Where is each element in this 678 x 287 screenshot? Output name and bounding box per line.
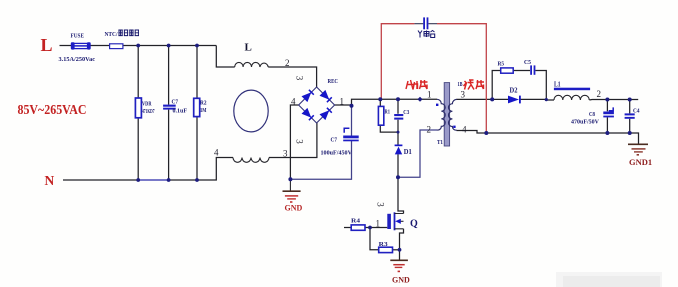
capacitor C4 plates: [625, 113, 635, 118]
svg-text:471KD7: 471KD7: [142, 108, 155, 115]
ground GND primary bridge: [283, 179, 301, 203]
node output C8 bottom: [605, 131, 609, 135]
svg-text:4: 4: [214, 148, 219, 158]
varistor VDR: [135, 98, 141, 118]
node output C8 top: [605, 98, 609, 102]
capacitor Y-cap plates: [423, 17, 428, 29]
svg-text:3: 3: [376, 202, 386, 207]
wire secondary bottom rail: [457, 131, 639, 145]
wire red Y-cap link left edge: [381, 24, 414, 100]
svg-text:GND: GND: [285, 204, 303, 213]
resistor R4: [351, 225, 365, 230]
bridge diode bottom-left: [302, 109, 313, 120]
svg-text:1M: 1M: [200, 107, 207, 114]
svg-text:R1: R1: [385, 109, 391, 116]
wire C7 bulk top leg: [351, 106, 353, 136]
wire R3 to source: [393, 249, 400, 251]
svg-text:L: L: [245, 42, 252, 54]
svg-text:C7: C7: [172, 99, 179, 106]
svg-text:3: 3: [295, 76, 305, 81]
inductor L1 winding: [554, 95, 589, 100]
svg-text:3.15A/250Vac: 3.15A/250Vac: [59, 56, 96, 63]
svg-text:C5: C5: [524, 59, 531, 66]
node gate junction: [368, 226, 372, 230]
svg-text:C3: C3: [403, 109, 409, 116]
bridge diode top-right: [320, 91, 331, 102]
svg-text:1: 1: [427, 90, 432, 100]
node secondary snubber junction: [490, 97, 494, 101]
wire R4 to gate: [365, 227, 387, 229]
svg-text:1: 1: [376, 219, 381, 229]
wire fuse to NTC: [91, 45, 110, 47]
wire VDR legs: [137, 46, 139, 181]
wire snubber R5C5 left leg: [492, 71, 501, 100]
node gnd rail junction: [288, 177, 292, 181]
label Y电容 (fake CJK): [418, 31, 435, 38]
svg-text:R2: R2: [200, 100, 207, 107]
wire N segment (blue): [138, 179, 168, 181]
svg-text:2: 2: [285, 58, 290, 68]
wire C8 output legs: [606, 100, 608, 134]
svg-text:1: 1: [340, 97, 345, 107]
svg-text:R5: R5: [498, 61, 505, 68]
svg-text:C7: C7: [331, 137, 338, 144]
node source-R3 junction: [398, 248, 402, 252]
node snubber join: [397, 131, 400, 134]
svg-text:NTC/: NTC/: [105, 31, 118, 38]
svg-text:2: 2: [427, 125, 432, 135]
inductor L1 core bar: [554, 88, 590, 91]
transformer T1 secondary winding: [449, 99, 457, 130]
resistor R3: [379, 247, 393, 252]
wire R5 to C5: [513, 70, 530, 72]
bridge rectifier REC outline: [299, 87, 335, 123]
wire C5 to down leg: [535, 71, 546, 100]
wire R2 legs: [196, 46, 198, 181]
svg-text:D2: D2: [510, 88, 519, 95]
svg-text:4: 4: [291, 97, 296, 107]
wire N line: [63, 179, 138, 181]
svg-text:L1: L1: [554, 81, 561, 89]
capacitor C7 bulk electrolytic: [343, 128, 359, 141]
svg-text:N: N: [45, 173, 55, 188]
transformer T1 secondary phase dot: [453, 126, 455, 128]
svg-text:3: 3: [283, 149, 288, 159]
label 初级 primary (fake CJK): [406, 80, 428, 90]
wire L line from L label to fuse: [60, 45, 72, 47]
resistor NTC: [110, 44, 123, 49]
wire gate stub left: [344, 227, 351, 229]
node drain junction: [396, 175, 400, 179]
wire C4 output legs: [629, 100, 631, 134]
node C3 top: [396, 97, 400, 101]
node wire dot near pin1: [417, 97, 422, 102]
inductor choke bottom winding: [233, 158, 269, 163]
inductor choke top winding: [235, 62, 268, 67]
ground GND1 output: [628, 144, 648, 155]
wire gate node down to R3: [370, 228, 379, 250]
svg-text:85V~265VAC: 85V~265VAC: [18, 103, 87, 118]
wire corner down into choke top winding: [216, 46, 234, 68]
wire Y-cap dark leads: [414, 23, 437, 25]
svg-text:FUSE: FUSE: [71, 34, 85, 40]
node N rail junctions: [136, 178, 140, 182]
wire C3 join down to D1: [397, 132, 399, 144]
wire L1 to output caps: [589, 99, 638, 102]
wire drain down to mosfet: [398, 177, 404, 213]
transformer T1 primary phase dot: [436, 104, 438, 106]
wire D2 to L1: [521, 98, 555, 101]
svg-text:D1: D1: [404, 149, 413, 156]
fuse FUSE: [71, 42, 91, 49]
transformer T1 core: [444, 83, 449, 146]
wire bridge left vertex to gnd rail: [290, 105, 298, 179]
wire choke top winding to bridge top: [268, 67, 316, 87]
transformer T1 primary winding: [437, 99, 445, 130]
svg-text:3: 3: [461, 90, 466, 100]
wire bridge right vertex to C7 bulk junction: [335, 104, 352, 106]
svg-text:GND1: GND1: [629, 157, 652, 167]
wire C7 X-cap legs: [168, 46, 170, 181]
resistor R1: [378, 106, 383, 125]
bridge diode top-left: [302, 90, 313, 101]
svg-text:C8: C8: [589, 111, 595, 118]
wire N to choke bottom: [169, 158, 233, 181]
capacitor C7 X-cap plates: [163, 105, 176, 110]
svg-text:R4: R4: [351, 218, 361, 225]
wire red Y-cap link right edge: [437, 24, 486, 133]
svg-text:C4: C4: [633, 108, 640, 115]
capacitor C5 plates: [530, 65, 535, 74]
svg-text:T1: T1: [437, 139, 443, 146]
node red link bottom: [484, 131, 488, 135]
node output C4 top: [628, 98, 632, 102]
bridge diode bottom-right: [320, 108, 331, 119]
wire NTC to choke corner: [123, 45, 216, 47]
node L1 left junction: [545, 98, 548, 101]
capacitor C3 plates: [394, 114, 403, 120]
node output C4 bottom: [628, 131, 632, 135]
wire drain junction to transformer pin2 (navy loop): [398, 130, 437, 177]
wire C3 snubber legs: [397, 99, 399, 132]
transistor Q1 mosfet: [387, 212, 403, 230]
label 次级 secondary (fake CJK): [464, 80, 485, 90]
svg-text:2: 2: [597, 89, 602, 99]
wire primary gnd rail (navy): [290, 141, 351, 179]
pin number labels: [214, 58, 601, 229]
svg-text:L: L: [41, 35, 53, 55]
capacitor C8 output electrolytic: [603, 107, 614, 117]
diode D1: [395, 145, 403, 155]
wire R1 snubber legs: [380, 99, 398, 132]
node R1 top: [378, 97, 382, 101]
ground GND mosfet source: [390, 260, 408, 272]
svg-text:3: 3: [295, 139, 305, 144]
svg-text:470uF/50V: 470uF/50V: [571, 119, 599, 126]
svg-text:4: 4: [462, 125, 467, 135]
svg-text:0.1uF: 0.1uF: [173, 108, 188, 115]
wire mosfet source down to gnd: [400, 229, 404, 260]
choke core ellipse: [234, 90, 268, 132]
node top rail junctions: [136, 44, 140, 48]
wire transformer pin3 to D2: [457, 98, 509, 100]
svg-text:1B: 1B: [458, 82, 463, 88]
svg-text:VDR: VDR: [142, 101, 152, 108]
resistor R5: [501, 68, 514, 73]
svg-text:R3: R3: [379, 241, 388, 248]
node DC+ junction C7 bulk: [350, 104, 354, 108]
svg-text:GND: GND: [392, 276, 410, 285]
wire D1 anode to drain junction: [397, 154, 399, 177]
resistor R2: [194, 98, 200, 116]
svg-text:100uF/450V: 100uF/450V: [321, 150, 353, 157]
wire choke bottom winding to bridge bottom vertex: [269, 123, 317, 158]
diode D2: [508, 96, 521, 104]
svg-text:REC: REC: [328, 78, 339, 85]
svg-text:Q: Q: [410, 219, 418, 230]
wire DC+ top rail jog: [352, 99, 438, 106]
